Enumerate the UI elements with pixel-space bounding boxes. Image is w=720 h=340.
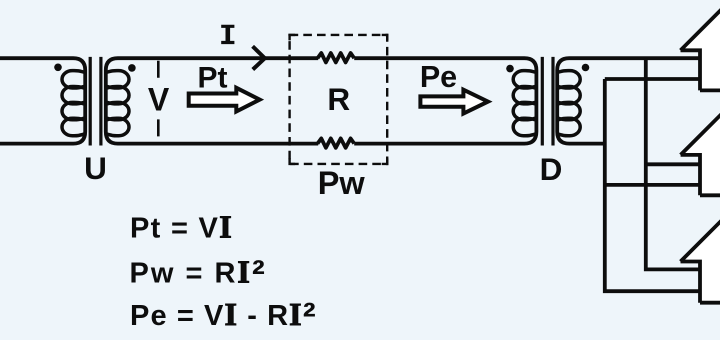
wire: bus B vertical (x=645.8) down to house 3 upper feed [646, 58, 701, 269]
polarity dot U primary [54, 64, 62, 72]
svg-text:V: V [148, 81, 170, 117]
svg-text:Pt: Pt [198, 61, 228, 94]
transformer D core [542, 57, 553, 146]
current direction arrowhead I [253, 46, 265, 69]
polarity dot D primary [506, 65, 514, 73]
power flow arrow Pt [189, 88, 260, 112]
polarity dot U secondary [128, 64, 136, 72]
resistor R top (line resistance) [318, 53, 355, 62]
svg-text:Pt = VI: Pt = VI [130, 208, 233, 244]
house 2 (load) [681, 75, 720, 195]
house 3 (load) [681, 182, 720, 303]
wire: house 2 upper feed [646, 162, 701, 166]
wire: D secondary loop, top feed to house 1 and bottom feed to bus A [557, 58, 701, 143]
wire: house 2 lower feed [605, 183, 701, 187]
transformer D primary winding [513, 71, 537, 136]
power flow arrow Pe [420, 90, 488, 114]
polarity dot D secondary [582, 64, 590, 72]
svg-text:U: U [84, 150, 107, 186]
transformer U core [90, 57, 101, 146]
wire: house 1 lower feed [605, 77, 701, 81]
house 1 (load) [681, 0, 720, 90]
svg-text:R: R [327, 81, 350, 117]
wire: mains primary loop into transformer U [0, 58, 85, 143]
resistor R bottom (line resistance) [318, 138, 355, 147]
dashed box around line resistance R [290, 35, 388, 164]
wire: bus A vertical (x=604.8) down to house 3 lower feed [605, 79, 701, 291]
svg-text:D: D [540, 151, 563, 187]
transformer D secondary winding [556, 71, 580, 136]
svg-text:Pw: Pw [318, 165, 366, 201]
svg-text:Pe: Pe [420, 60, 457, 94]
voltage marker dashed line V [157, 61, 160, 137]
transformer U secondary winding [105, 71, 129, 136]
transformer U primary winding [62, 71, 86, 136]
wire: transmission line loop from U secondary to D primary [106, 58, 537, 143]
label I [221, 25, 234, 44]
